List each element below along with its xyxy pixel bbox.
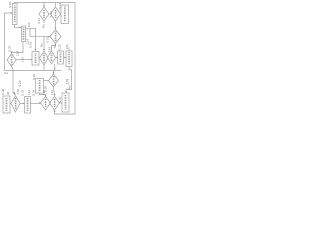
wire D2b to box RA <box>56 57 58 59</box>
process box R2L <box>22 26 26 42</box>
svg-text:Yes: Yes <box>4 71 9 75</box>
text inside DC <box>55 32 57 42</box>
wire D2 bottom into collector <box>43 65 45 71</box>
wire RM to P2 <box>31 103 41 105</box>
text inside RL <box>6 98 8 112</box>
wire input to S10 from left feedback <box>5 13 13 71</box>
process box S10 <box>13 4 18 25</box>
text inside DA <box>43 10 45 19</box>
wire Rm2 to D3 left <box>44 80 49 82</box>
wire into decision A <box>43 3 45 7</box>
wire D1 bottom long drop to diamond P1 <box>12 67 16 96</box>
arrow into D3 top <box>53 72 55 74</box>
svg-text:30: 30 <box>6 91 10 95</box>
svg-text:S.10: S.10 <box>8 1 12 8</box>
process box Rm2 <box>36 79 44 94</box>
wire branch down into decision D2 <box>43 36 45 50</box>
svg-text:S.22: S.22 <box>57 44 61 51</box>
wire RB2 bottom to output box route <box>66 67 72 93</box>
svg-text:122: 122 <box>27 22 31 27</box>
arrow into Q bottom from return loop <box>54 110 56 112</box>
wire P1 to RM <box>20 103 25 105</box>
wire D2b bottom into collector <box>54 64 56 71</box>
wire stub below diamond A <box>43 21 45 23</box>
svg-text:124: 124 <box>15 51 19 56</box>
text inside R2 <box>35 54 37 64</box>
arrow into diamond DC top <box>55 28 57 30</box>
output box Rbot <box>62 93 69 112</box>
svg-text:136: 136 <box>16 89 20 94</box>
arrow into D1 top <box>11 52 13 54</box>
text inside Rbot <box>65 95 67 110</box>
wire R2L to box R2 (top route) <box>26 28 36 50</box>
text inside D2 <box>43 54 45 63</box>
svg-text:S.26: S.26 <box>32 73 36 80</box>
text inside RM <box>27 98 29 112</box>
process box RM <box>25 97 31 114</box>
wire Q to output box <box>60 102 63 104</box>
text inside D1 <box>11 56 13 65</box>
arrow into R2L left <box>20 27 22 29</box>
output box RL bottom left <box>3 96 10 113</box>
svg-text:S.14: S.14 <box>49 11 53 18</box>
arrow into RB2 left <box>65 57 67 59</box>
arrow into DC left <box>48 36 50 38</box>
decision diamond D2b <box>48 51 56 64</box>
wire DC bottom to diamond D2b <box>52 44 56 51</box>
decision diamond D2 <box>40 51 49 65</box>
decision diamond B <box>51 7 61 21</box>
text inside Q <box>54 99 56 108</box>
svg-text:S.32: S.32 <box>21 89 25 96</box>
wire horizontal collector line <box>5 70 62 72</box>
decision diamond P1 <box>11 96 20 113</box>
svg-text:No: No <box>39 43 43 47</box>
arrow into diamond A top <box>43 6 45 8</box>
text inside Rm2 <box>39 80 41 92</box>
text inside RA <box>60 53 62 63</box>
arrowheads <box>11 6 68 113</box>
decision diamond DC <box>50 30 61 44</box>
decision diamond D3 <box>49 74 59 87</box>
svg-text:Yes: Yes <box>53 43 57 48</box>
wire B to box RB <box>60 13 63 15</box>
svg-text:126: 126 <box>21 57 25 62</box>
text inside P2 <box>45 99 47 108</box>
arrow into D2 top <box>43 49 45 51</box>
decision diamond A <box>39 7 49 21</box>
wire collector down into diamond D3 <box>53 71 55 74</box>
text inside D3 <box>53 76 55 85</box>
decision diamond D1 <box>7 54 16 67</box>
wire R2L mid route to decision DC <box>30 28 50 36</box>
inner pseudo text columns (dashed) <box>7 6 70 112</box>
svg-text:130: 130 <box>65 44 69 49</box>
arrow into R2 top <box>35 50 37 52</box>
text inside D2b <box>51 54 53 62</box>
wire label leader into RB2 top <box>68 48 70 52</box>
process box R2 <box>32 52 39 66</box>
wire S10 bottom to box R2L <box>15 25 22 28</box>
svg-text:124: 124 <box>26 39 30 44</box>
svg-text:S.34: S.34 <box>32 89 36 96</box>
svg-text:134: 134 <box>48 47 52 52</box>
small rotated labels <box>1 1 71 103</box>
arrow into P1 top <box>13 92 15 95</box>
svg-text:138: 138 <box>42 90 46 95</box>
svg-text:S.12: S.12 <box>37 18 41 24</box>
text inside R2L <box>23 28 25 41</box>
process box RB2 <box>66 51 72 67</box>
arrow into S10 left <box>11 12 13 14</box>
wire top bus and right return loop <box>15 3 76 115</box>
wire R2L bottom to decision D1 <box>12 42 24 54</box>
arrow into collector from D2b route <box>54 68 56 70</box>
decision diamond Q <box>50 97 60 111</box>
svg-text:.178: .178 <box>65 79 69 85</box>
process box RA <box>58 51 64 64</box>
text inside RB2 <box>68 53 70 65</box>
wire RA to RB2 <box>64 57 67 59</box>
svg-text:132: 132 <box>27 90 31 95</box>
wire Rm2 bottom to diamond P2 <box>40 93 46 96</box>
wire D3 bottom to diamond Q <box>54 87 55 96</box>
wire B bottom to decision DC <box>55 21 57 29</box>
text inside S10 <box>14 6 16 23</box>
wire P1 to RL <box>10 103 11 105</box>
svg-text:140: 140 <box>50 90 54 95</box>
arrow into P2 top <box>45 95 47 97</box>
wire D1 right to R2 <box>16 59 32 61</box>
svg-text:S.24: S.24 <box>18 80 22 87</box>
svg-text:No: No <box>67 85 71 89</box>
text inside DB <box>55 10 57 19</box>
arrow into Rbot top <box>65 91 67 93</box>
svg-text:S.36: S.36 <box>58 96 62 103</box>
arrow into Q top <box>54 94 56 96</box>
arrow into RA left <box>56 57 58 59</box>
wire A to B <box>49 13 51 15</box>
decision diamond P2 <box>41 97 51 111</box>
arrow into P2 left <box>39 102 41 104</box>
svg-text:S.16: S.16 <box>45 36 49 43</box>
wire into decision B <box>55 3 57 7</box>
arrow into RM left <box>23 103 25 105</box>
svg-text:No: No <box>42 24 46 28</box>
svg-text:S.30: S.30 <box>1 88 5 95</box>
svg-text:S.12: S.12 <box>58 2 62 9</box>
process box RB top right <box>61 5 69 24</box>
text inside P1 <box>15 98 17 110</box>
svg-text:S.20: S.20 <box>8 45 12 52</box>
arrow into R2 left from D1 <box>31 59 32 61</box>
text inside RB <box>64 7 66 23</box>
